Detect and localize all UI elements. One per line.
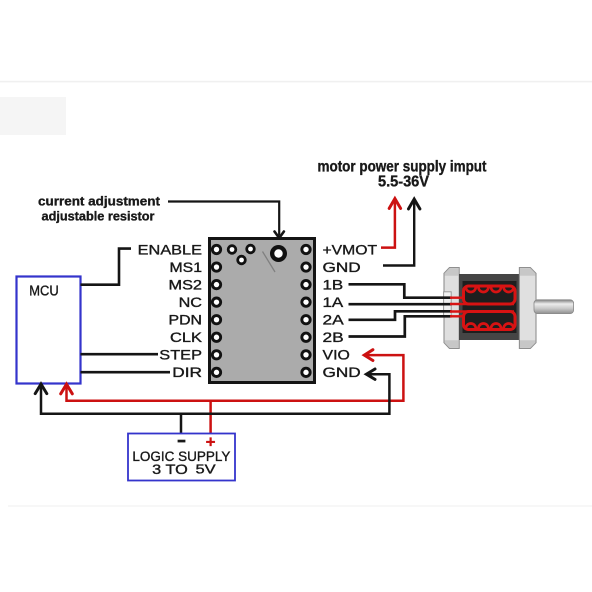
svg-text:5.5-36V: 5.5-36V (378, 174, 430, 191)
svg-text:MCU: MCU (29, 282, 59, 299)
wire MCU to STEP (81, 353, 159, 356)
svg-text:STEP: STEP (159, 348, 202, 363)
logic supply source box (128, 434, 235, 481)
motor coil windings (red) (450, 286, 515, 330)
svg-text:VIO: VIO (323, 348, 350, 363)
label LOGIC SUPPLY 3 TO 5V (132, 449, 230, 477)
svg-text:MS1: MS1 (170, 260, 203, 275)
wire 2B to motor (349, 316, 452, 336)
wire VIO to logic supply + (red net) (61, 350, 404, 434)
stepper motor left flange (444, 268, 460, 349)
svg-text:adjustable resistor: adjustable resistor (42, 209, 155, 224)
stepper motor shaft (534, 300, 574, 314)
logic supply - terminal (178, 440, 186, 443)
wire +VMOT to motor power supply (red) (381, 199, 401, 248)
wire 1B to motor (349, 284, 452, 297)
stepper driver board (210, 239, 315, 383)
coil lead stubs (450, 297, 465, 299)
svg-text:current adjustment: current adjustment (38, 194, 161, 209)
stepper motor right flange (519, 268, 536, 349)
right pin header holes (300, 244, 311, 378)
svg-text:ENABLE: ENABLE (138, 242, 202, 257)
wire 1A to motor (349, 303, 452, 306)
svg-text:5V: 5V (196, 461, 217, 476)
svg-text:MS2: MS2 (169, 277, 203, 292)
svg-text:3 TO: 3 TO (152, 462, 188, 477)
left pin header holes (211, 244, 222, 378)
board mounting holes (227, 244, 256, 265)
svg-text:1A: 1A (323, 295, 344, 310)
wire MCU to DIR (81, 371, 171, 374)
label: motor power supply imput (318, 159, 487, 191)
svg-text:2B: 2B (323, 330, 344, 345)
svg-text:DIR: DIR (172, 365, 202, 380)
stepper motor body (459, 274, 520, 340)
wire GND to logic supply - (black net) (35, 369, 389, 434)
MCU (17, 277, 81, 384)
svg-text:+VMOT: +VMOT (323, 242, 378, 257)
wire GND to motor power supply (black) (383, 199, 420, 265)
potentiometer (current adjustment resistor) (263, 245, 288, 272)
wire MCU to ENABLE (81, 249, 132, 285)
svg-text:1B: 1B (323, 277, 344, 292)
label: current adjustment adjustable resistor (38, 194, 161, 224)
wire 2A to motor (349, 311, 452, 320)
svg-text:NC: NC (179, 295, 203, 310)
wire label to potentiometer (with arrow) (168, 202, 284, 239)
svg-text:GND: GND (323, 260, 362, 275)
svg-text:GND: GND (323, 365, 362, 380)
svg-text:CLK: CLK (170, 330, 202, 345)
svg-text:PDN: PDN (169, 313, 203, 328)
svg-text:2A: 2A (323, 313, 344, 328)
